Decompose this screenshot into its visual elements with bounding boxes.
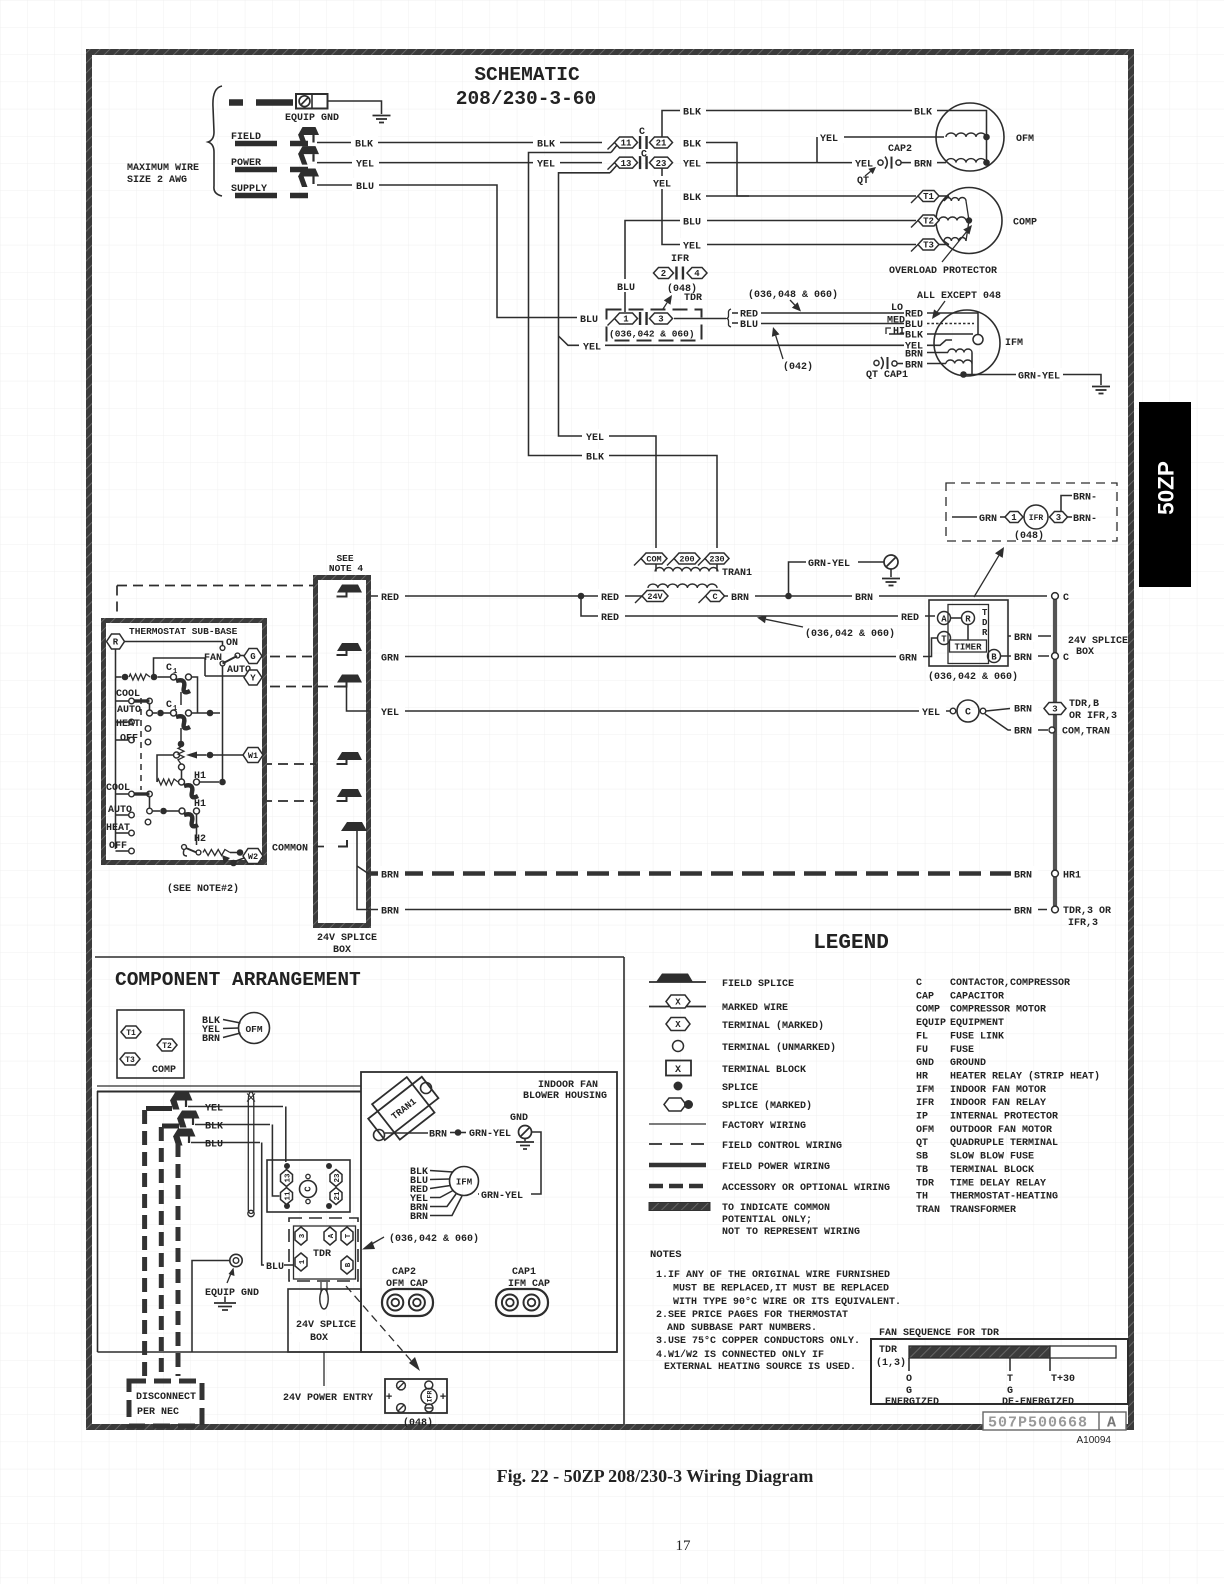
svg-text:TDR: TDR xyxy=(313,1249,331,1260)
svg-text:BRN: BRN xyxy=(381,907,399,918)
svg-text:T2: T2 xyxy=(923,217,934,227)
svg-text:ON: ON xyxy=(226,638,238,649)
svg-text:COM,TRAN: COM,TRAN xyxy=(1062,727,1110,738)
field power bar 3 xyxy=(235,193,277,199)
svg-text:R: R xyxy=(982,628,988,638)
svg-text:H1: H1 xyxy=(194,771,206,782)
transformer TRAN1 terminal COM xyxy=(634,559,641,566)
label BLU at T2 xyxy=(680,214,707,227)
terminal Y xyxy=(244,670,262,685)
svg-text:INDOOR FAN: INDOOR FAN xyxy=(538,1080,598,1091)
wire YEL to contactor xyxy=(188,1106,283,1108)
W1 row potentiometer xyxy=(178,741,185,748)
svg-text:1: 1 xyxy=(1011,513,1017,523)
svg-text:FUSE LINK: FUSE LINK xyxy=(950,1031,1004,1042)
legend field power wiring xyxy=(649,1163,706,1168)
ground screw arrangement xyxy=(519,1126,532,1139)
svg-text:COOL: COOL xyxy=(116,689,140,700)
svg-text:FUSE: FUSE xyxy=(950,1045,974,1056)
dashed wire G to box xyxy=(270,656,315,658)
svg-text:13: 13 xyxy=(621,159,632,169)
svg-text:TERMINAL BLOCK: TERMINAL BLOCK xyxy=(950,1165,1034,1176)
svg-text:H2: H2 xyxy=(194,834,206,845)
W1 wiper xyxy=(174,752,180,758)
arrow 042 to BLU wire xyxy=(776,336,783,359)
svg-text:YEL: YEL xyxy=(381,708,399,719)
terminal 11 xyxy=(608,143,615,150)
terminal 21 xyxy=(650,137,673,148)
svg-text:OFM: OFM xyxy=(1016,134,1034,145)
svg-text:GRN: GRN xyxy=(381,654,399,665)
ground symbol right xyxy=(1092,386,1110,388)
wire YEL inside box xyxy=(347,687,371,712)
leader 24v power entry xyxy=(323,1352,325,1386)
elbow YEL thick xyxy=(146,1106,172,1111)
H2 switch xyxy=(182,845,187,850)
svg-text:QT CAP1: QT CAP1 xyxy=(866,370,908,381)
label 24V SPLICE BOX arr xyxy=(292,1316,354,1342)
svg-text:OUTDOOR FAN MOTOR: OUTDOOR FAN MOTOR xyxy=(950,1125,1052,1136)
dashed wire Y to box xyxy=(270,686,340,688)
motor OFM xyxy=(936,103,1004,171)
svg-text:21: 21 xyxy=(656,139,667,149)
svg-text:Fig. 22 - 50ZP 208/230-3 Wirin: Fig. 22 - 50ZP 208/230-3 Wiring Diagram xyxy=(497,1466,814,1486)
wire BLK field to terminal 11 xyxy=(317,142,602,144)
terminal W2 xyxy=(243,849,263,864)
svg-text:IFR: IFR xyxy=(427,1391,434,1403)
terminal T1 xyxy=(911,196,918,203)
svg-text:BRN: BRN xyxy=(1014,653,1032,664)
svg-text:YEL: YEL xyxy=(586,433,604,444)
TRAN1 primary coil xyxy=(655,568,718,572)
fan sequence chart box xyxy=(871,1339,1128,1404)
svg-text:BRN: BRN xyxy=(202,1034,220,1045)
svg-text:GROUND: GROUND xyxy=(950,1058,986,1069)
timer internal wires xyxy=(951,617,962,619)
svg-text:(042): (042) xyxy=(783,361,813,373)
border frame xyxy=(89,52,1131,1427)
selector block1 contacts xyxy=(129,698,135,704)
label BLU left xyxy=(352,178,379,191)
cabinet left edge xyxy=(97,1091,99,1352)
svg-text:DISCONNECT: DISCONNECT xyxy=(136,1392,196,1403)
svg-text:SPLICE (MARKED): SPLICE (MARKED) xyxy=(722,1100,812,1112)
TDR terminal 3 arr xyxy=(295,1227,307,1245)
splice symbol spare xyxy=(337,789,362,797)
wire BLK into OFM xyxy=(937,111,987,135)
svg-text:COMPRESSOR MOTOR: COMPRESSOR MOTOR xyxy=(950,1005,1046,1016)
svg-text:GRN: GRN xyxy=(979,514,997,525)
splice symbol RED xyxy=(337,585,362,593)
transformer terminal 230 xyxy=(698,559,705,566)
wire C1 to row2 xyxy=(192,677,198,713)
svg-text:1.IF ANY OF THE ORIGINAL WIRE: 1.IF ANY OF THE ORIGINAL WIRE FURNISHED xyxy=(656,1270,890,1281)
svg-text:1: 1 xyxy=(623,315,629,325)
svg-text:BRN: BRN xyxy=(1014,633,1032,644)
terminal T3 comp xyxy=(120,1053,140,1065)
power dashes col3 xyxy=(176,1143,181,1376)
svg-text:CAP1: CAP1 xyxy=(512,1267,536,1278)
arrow 036048060 to RED wire xyxy=(790,300,795,305)
svg-text:FIELD POWER WIRING: FIELD POWER WIRING xyxy=(722,1162,830,1173)
label BLU at left of TDR xyxy=(613,279,640,292)
terminal block COMP xyxy=(117,1010,184,1078)
svg-text:BLU: BLU xyxy=(617,283,635,294)
divider line legend left xyxy=(623,957,625,1424)
box 048 IFR option xyxy=(946,483,1117,541)
svg-text:RED: RED xyxy=(601,613,619,624)
thermostat row1 resistor xyxy=(122,674,129,681)
thermostat row2 xyxy=(147,710,153,716)
svg-text:BLU: BLU xyxy=(683,218,701,229)
wire equip gnd down xyxy=(192,1261,230,1353)
legend splice xyxy=(674,1082,683,1091)
wire BLK IFM xyxy=(889,333,904,335)
timer terminal T xyxy=(938,632,951,645)
COMP center dot internal protector xyxy=(966,217,972,223)
svg-text:G: G xyxy=(250,652,255,662)
svg-text:TERMINAL BLOCK: TERMINAL BLOCK xyxy=(722,1065,806,1076)
svg-text:Y: Y xyxy=(250,674,256,684)
power dashes col1 xyxy=(142,1110,147,1381)
svg-text:EQUIP GND: EQUIP GND xyxy=(205,1288,259,1299)
svg-text:(036,042 & 060): (036,042 & 060) xyxy=(928,671,1018,683)
svg-text:(1,3): (1,3) xyxy=(876,1357,906,1369)
field splice arrow BLK arrangement xyxy=(177,1111,200,1119)
svg-text:IFR,3: IFR,3 xyxy=(1068,918,1098,929)
svg-text:FIELD SPLICE: FIELD SPLICE xyxy=(722,979,794,990)
svg-text:507P500668: 507P500668 xyxy=(988,1415,1088,1432)
legend marked wire xyxy=(649,1006,706,1008)
contactor terminal 13 xyxy=(281,1170,293,1187)
svg-text:TDR: TDR xyxy=(879,1345,897,1356)
svg-text:200: 200 xyxy=(679,555,694,565)
terminal 1 TDR xyxy=(608,319,615,326)
label YEL on COM branch xyxy=(582,429,609,442)
svg-text:NOTE 4: NOTE 4 xyxy=(329,563,364,574)
svg-text:BRN: BRN xyxy=(429,1130,447,1141)
svg-text:A: A xyxy=(941,615,947,625)
field splice arrow BLU xyxy=(298,169,319,177)
splice symbol W1 xyxy=(337,752,362,760)
svg-text:3.USE 75°C COPPER CONDUCTORS O: 3.USE 75°C COPPER CONDUCTORS ONLY. xyxy=(656,1335,860,1347)
svg-text:YEL: YEL xyxy=(537,160,555,171)
bus terminal TDR3 xyxy=(1052,906,1059,913)
contactor coil C arrangement xyxy=(300,1181,317,1198)
svg-text:CAP: CAP xyxy=(916,991,934,1002)
equip gnd ground symbol xyxy=(224,1297,226,1303)
wire TRAN1 BRN GRN-YEL gnd xyxy=(385,1132,428,1134)
svg-text:TDR,3 OR: TDR,3 OR xyxy=(1063,906,1111,917)
svg-text:21: 21 xyxy=(334,1191,342,1201)
svg-text:BRN: BRN xyxy=(410,1212,428,1223)
svg-text:QT: QT xyxy=(857,176,869,187)
svg-text:24V SPLICE: 24V SPLICE xyxy=(1068,636,1128,647)
wire YEL OFM coil xyxy=(817,136,944,138)
COMP windings xyxy=(939,195,949,197)
svg-text:COMP: COMP xyxy=(916,1005,940,1016)
chart bar open xyxy=(1050,1346,1116,1358)
svg-text:CAP2: CAP2 xyxy=(392,1267,416,1278)
svg-text:B: B xyxy=(345,1262,353,1267)
svg-text:17: 17 xyxy=(676,1538,692,1554)
svg-text:A: A xyxy=(1107,1415,1116,1432)
ground screw mid xyxy=(858,561,884,563)
label YEL at T3 xyxy=(680,238,707,251)
svg-text:BRN-: BRN- xyxy=(1073,493,1097,504)
wire 23 to CAP2 row xyxy=(706,162,853,164)
svg-text:BLOWER HOUSING: BLOWER HOUSING xyxy=(523,1091,607,1102)
svg-text:MAXIMUM WIRE: MAXIMUM WIRE xyxy=(127,163,199,174)
selector block1 blade xyxy=(135,699,150,702)
relay block TDR timer xyxy=(929,600,1008,666)
relay coil IFR 048 xyxy=(1024,505,1048,529)
svg-text:IFR: IFR xyxy=(916,1098,934,1109)
svg-text:EQUIP GND: EQUIP GND xyxy=(285,113,339,124)
svg-text:COMPONENT ARRANGEMENT: COMPONENT ARRANGEMENT xyxy=(115,969,361,991)
svg-text:LEGEND: LEGEND xyxy=(813,932,889,955)
legend accessory wiring xyxy=(649,1184,706,1189)
svg-text:YEL: YEL xyxy=(922,708,940,719)
svg-text:SB: SB xyxy=(916,1152,928,1163)
wire GRN row to timer T xyxy=(403,638,938,657)
svg-text:+: + xyxy=(386,1392,393,1404)
svg-text:(048): (048) xyxy=(1014,530,1044,542)
wire BLK to OFM xyxy=(706,110,912,112)
svg-text:BRN: BRN xyxy=(731,593,749,604)
svg-text:GND: GND xyxy=(916,1058,934,1069)
wire BRN accessory HR1 xyxy=(370,871,1011,876)
arrow to 048 box xyxy=(974,556,999,597)
TDR contact bars xyxy=(639,312,641,325)
svg-text:RED: RED xyxy=(740,310,758,321)
svg-text:T2: T2 xyxy=(162,1042,172,1051)
equip gnd lug EQUIP GND xyxy=(296,94,328,109)
power dashes col2 xyxy=(159,1127,164,1381)
svg-text:BLU: BLU xyxy=(905,320,923,331)
svg-text:HEATER RELAY (STRIP HEAT): HEATER RELAY (STRIP HEAT) xyxy=(950,1070,1100,1082)
svg-text:IFM: IFM xyxy=(916,1085,934,1096)
indoor fan blower housing box xyxy=(361,1072,617,1352)
fan switch blade xyxy=(223,656,238,664)
svg-text:24V POWER ENTRY: 24V POWER ENTRY xyxy=(283,1393,373,1404)
svg-text:R: R xyxy=(965,615,971,625)
label RED before 24V xyxy=(598,589,625,602)
svg-text:C: C xyxy=(304,1186,314,1192)
svg-text:BRN: BRN xyxy=(855,593,873,604)
svg-text:COOL: COOL xyxy=(106,783,130,794)
bus terminal C top xyxy=(1052,593,1059,600)
wire BLU to IFM MED xyxy=(761,323,904,325)
svg-text:BRN: BRN xyxy=(905,350,923,361)
svg-text:T: T xyxy=(941,635,947,645)
svg-text:MED: MED xyxy=(887,316,905,327)
label YEL CAP2 xyxy=(852,156,879,169)
svg-text:CONTACTOR,COMPRESSOR: CONTACTOR,COMPRESSOR xyxy=(950,978,1070,989)
svg-text:BLU: BLU xyxy=(356,182,374,193)
motor COMP xyxy=(936,188,1002,254)
svg-text:INDOOR FAN RELAY: INDOOR FAN RELAY xyxy=(950,1098,1046,1109)
svg-text:BLK: BLK xyxy=(914,108,932,119)
svg-text:BRN: BRN xyxy=(914,160,932,171)
svg-text:SCHEMATIC: SCHEMATIC xyxy=(474,64,580,86)
svg-text:BRN: BRN xyxy=(1014,705,1032,716)
svg-text:ALL EXCEPT 048: ALL EXCEPT 048 xyxy=(917,291,1001,302)
svg-text:(036,042 & 060): (036,042 & 060) xyxy=(389,1233,479,1245)
OFM top coil xyxy=(946,133,986,137)
wire RED to IFM LO xyxy=(761,312,904,314)
svg-text:RED: RED xyxy=(601,593,619,604)
splice symbol GRN xyxy=(337,643,362,651)
timer terminal R xyxy=(962,612,975,625)
wire resistor branch to Y xyxy=(154,658,206,677)
splice symbol YEL xyxy=(337,675,362,683)
splice symbol COMMON xyxy=(341,822,367,831)
svg-text:A: A xyxy=(328,1233,336,1238)
svg-text:T: T xyxy=(345,1233,353,1238)
dashed wire spare to box xyxy=(262,800,316,802)
wire B to bus xyxy=(1001,655,1050,657)
svg-text:SPLICE: SPLICE xyxy=(722,1083,758,1094)
wire H1 to H2 xyxy=(196,814,198,845)
legend field control wiring xyxy=(649,1143,706,1145)
H1 first row xyxy=(157,779,178,785)
terminal W1 xyxy=(243,748,263,763)
svg-text:BLK: BLK xyxy=(683,140,701,151)
50ZP side tab xyxy=(1139,402,1191,587)
svg-text:IFM: IFM xyxy=(1005,338,1023,349)
arrow 036 timer to RED xyxy=(766,619,803,627)
wire RED 24V row xyxy=(370,595,642,597)
svg-text:C: C xyxy=(965,708,971,719)
wire 21 up to OFM top xyxy=(662,111,680,138)
wire R to fan switch xyxy=(125,642,223,646)
selector block2 blade xyxy=(135,792,150,795)
bus terminal HR1 xyxy=(1052,870,1059,877)
svg-text:HR1: HR1 xyxy=(1063,871,1081,882)
dashed wire W1 to box xyxy=(262,763,316,765)
svg-text:(036,042 & 060): (036,042 & 060) xyxy=(609,329,695,340)
svg-text:GRN-YEL: GRN-YEL xyxy=(808,559,850,570)
svg-text:OFM: OFM xyxy=(916,1125,934,1136)
timer terminal B xyxy=(988,650,1001,663)
wire GRN-YEL to ground xyxy=(964,375,1102,386)
svg-text:(048): (048) xyxy=(403,1417,433,1429)
svg-text:C: C xyxy=(166,700,172,711)
svg-text:HI: HI xyxy=(893,327,905,338)
svg-text:ACCESSORY OR OPTIONAL WIRING: ACCESSORY OR OPTIONAL WIRING xyxy=(722,1183,890,1194)
contact C1 first xyxy=(171,674,177,680)
terminal T2 xyxy=(911,221,918,228)
legend terminal unmarked xyxy=(673,1041,684,1052)
legend field splice symbol xyxy=(649,981,706,983)
svg-text:YEL: YEL xyxy=(583,342,601,353)
thermostat sub-base box xyxy=(104,621,265,863)
svg-text:RED: RED xyxy=(905,310,923,321)
label BLK on 230 branch xyxy=(582,449,609,462)
label BLK left xyxy=(351,136,378,149)
svg-text:BOX: BOX xyxy=(333,945,351,956)
wire TDR out right xyxy=(674,318,726,320)
timer TIMER box xyxy=(950,640,987,652)
wire BLU to TDR 1 xyxy=(191,1142,260,1144)
svg-text:RED: RED xyxy=(381,593,399,604)
svg-text:TDR,B: TDR,B xyxy=(1069,699,1099,710)
plug 048 xyxy=(385,1379,447,1413)
wire BRN 24V splice to bus xyxy=(1008,635,1051,637)
equip gnd leader xyxy=(227,1271,232,1283)
svg-text:TIMER: TIMER xyxy=(954,643,982,653)
svg-text:+: + xyxy=(440,1392,447,1404)
wire QT CAP2 row xyxy=(816,137,818,163)
arrow all except 048 xyxy=(937,301,945,312)
TDR terminal A arr xyxy=(324,1227,336,1245)
svg-text:IFM: IFM xyxy=(456,1178,472,1188)
svg-text:B: B xyxy=(991,653,997,663)
svg-text:PER NEC: PER NEC xyxy=(137,1407,179,1418)
svg-text:TRANSFORMER: TRANSFORMER xyxy=(950,1205,1016,1216)
equip gnd leader dashes xyxy=(229,99,243,106)
plug screws xyxy=(397,1381,406,1390)
splice loop 24v box xyxy=(320,1289,328,1309)
wire common down to BRN rows xyxy=(357,831,370,910)
wire 23 down to T3 xyxy=(662,168,916,245)
cabinet bottom edge xyxy=(98,1351,618,1353)
svg-text:COM: COM xyxy=(646,555,661,565)
wire BLU to T2 xyxy=(625,221,916,313)
svg-text:HR: HR xyxy=(916,1071,928,1082)
svg-text:FIELD CONTROL WIRING: FIELD CONTROL WIRING xyxy=(722,1141,842,1152)
contactor terminal 11 xyxy=(281,1188,293,1205)
wire BLU field down to TDR 1 xyxy=(317,185,580,318)
legend splice marked xyxy=(664,1098,686,1111)
bus terminal COM TRAN xyxy=(1049,727,1055,733)
svg-text:50ZP: 50ZP xyxy=(1154,461,1179,515)
dashed wire R to box xyxy=(117,585,315,587)
contactor terminal 21 xyxy=(330,1188,342,1205)
svg-text:THERMOSTAT-HEATING: THERMOSTAT-HEATING xyxy=(950,1192,1058,1203)
svg-text:BLK: BLK xyxy=(683,108,701,119)
svg-text:YEL: YEL xyxy=(653,180,671,191)
svg-text:AUTO: AUTO xyxy=(117,705,141,716)
IFM internals xyxy=(927,313,978,334)
svg-text:C: C xyxy=(712,592,717,602)
svg-text:QUADRUPLE TERMINAL: QUADRUPLE TERMINAL xyxy=(950,1138,1058,1149)
svg-text:TB: TB xyxy=(916,1165,928,1176)
svg-text:OVERLOAD PROTECTOR: OVERLOAD PROTECTOR xyxy=(889,266,997,277)
svg-text:24V: 24V xyxy=(647,592,663,602)
wire BRN IFR bottom xyxy=(1068,516,1073,518)
svg-text:TRAN1: TRAN1 xyxy=(722,568,752,579)
terminal 1 IFR xyxy=(1000,516,1008,518)
svg-text:YEL: YEL xyxy=(356,160,374,171)
svg-text:(036,048 & 060): (036,048 & 060) xyxy=(748,289,838,301)
legend terminal block xyxy=(666,1061,691,1076)
svg-text:X: X xyxy=(675,1065,681,1076)
svg-text:X: X xyxy=(675,998,681,1008)
svg-text:BOX: BOX xyxy=(310,1333,328,1344)
svg-text:DE-ENERGIZED: DE-ENERGIZED xyxy=(1002,1397,1074,1408)
svg-text:OR IFR,3: OR IFR,3 xyxy=(1069,711,1117,722)
svg-text:MARKED WIRE: MARKED WIRE xyxy=(722,1003,788,1014)
svg-text:OFM: OFM xyxy=(245,1024,262,1035)
transformer terminal 200 xyxy=(667,559,674,566)
terminal 3 TDR xyxy=(650,313,673,324)
disconnect box xyxy=(129,1381,202,1426)
field power bar 2 xyxy=(235,167,277,173)
svg-text:RED: RED xyxy=(901,613,919,624)
terminal R xyxy=(107,634,125,649)
